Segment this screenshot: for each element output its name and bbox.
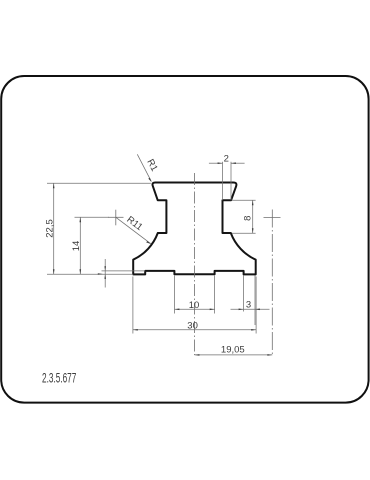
tiny channel-depth dimension cluster: [98, 259, 106, 288]
svg-text:2.3.5.677: 2.3.5.677: [42, 372, 76, 386]
die profile outline: [133, 183, 256, 275]
svg-text:8: 8: [243, 216, 254, 221]
dimension 2 (top right): [209, 153, 245, 200]
svg-text:19,05: 19,05: [221, 345, 245, 356]
svg-text:22,5: 22,5: [44, 219, 55, 238]
dimension 10: [175, 276, 215, 314]
dimension 30: [133, 277, 256, 334]
dimension 3: [231, 276, 270, 326]
R1 leader: [137, 154, 159, 182]
bottom reference extension line (foot bottom): [47, 273, 133, 275]
main vertical centerline: [194, 173, 196, 355]
border frame: [1, 76, 368, 403]
dimension 8 (right side): [232, 200, 256, 233]
svg-text:3: 3: [246, 299, 251, 310]
left R11 centre cross: [108, 210, 124, 226]
right aux centerline (R11 centre to 19,05 dim): [271, 210, 273, 355]
channel level extension line: [102, 270, 146, 272]
svg-text:30: 30: [187, 320, 198, 331]
svg-text:10: 10: [189, 300, 200, 311]
dimension 22,5: [44, 183, 151, 274]
svg-text:2: 2: [224, 153, 229, 164]
right R11 centre cross arm: [264, 217, 281, 219]
svg-text:14: 14: [71, 241, 82, 252]
dimension 19,05: [195, 345, 273, 356]
R11 leader: [116, 214, 151, 244]
dimension 14: [71, 217, 109, 274]
